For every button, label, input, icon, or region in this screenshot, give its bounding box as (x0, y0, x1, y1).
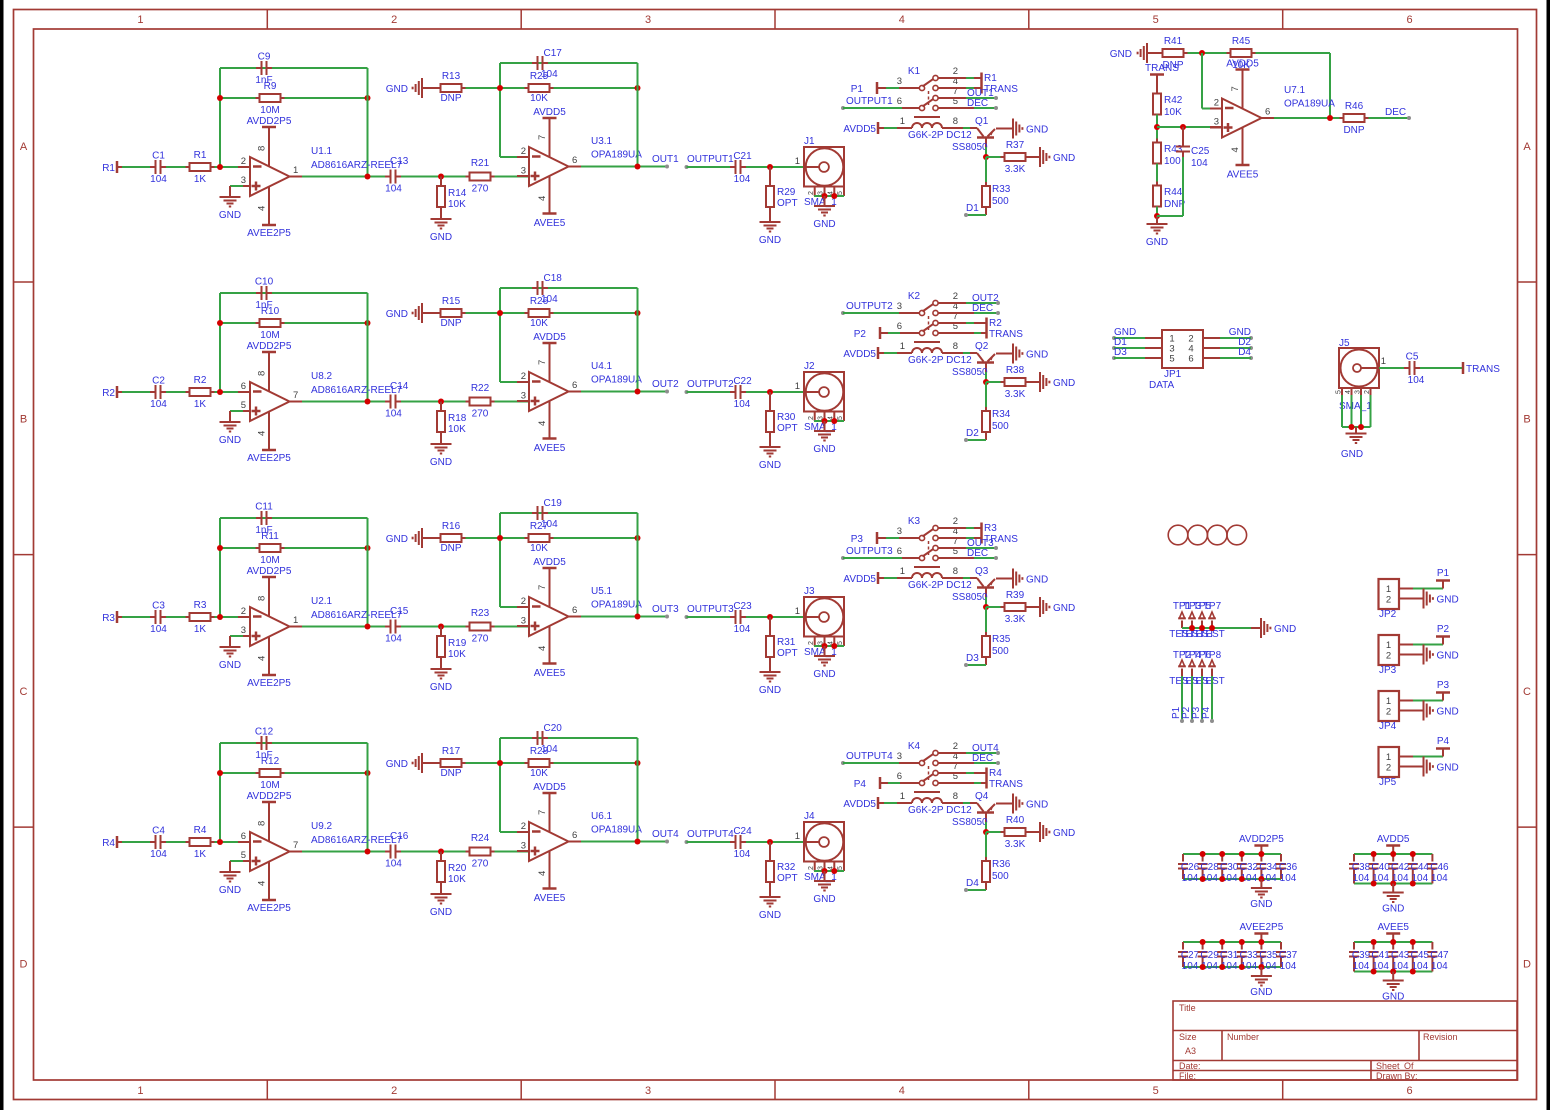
wire (166, 841, 186, 843)
wire (1354, 971, 1432, 973)
resistor R14 10K (437, 177, 467, 212)
wire (466, 312, 638, 314)
port P3 (851, 532, 877, 545)
svg-text:GND: GND (813, 219, 835, 230)
svg-text:104: 104 (1353, 961, 1370, 972)
wire (290, 401, 386, 403)
svg-text:C: C (1523, 686, 1531, 698)
svg-text:104: 104 (1408, 375, 1425, 386)
junction (1410, 939, 1416, 945)
wire (367, 68, 369, 177)
svg-text:6: 6 (897, 96, 902, 107)
svg-text:AD8616ARZ-REEL7: AD8616ARZ-REEL7 (311, 385, 403, 396)
svg-text:C31: C31 (1220, 950, 1239, 961)
junction (1371, 851, 1377, 857)
resistor R30 OPT (766, 392, 798, 436)
svg-text:C9: C9 (258, 52, 271, 63)
svg-text:G6K-2P DC12: G6K-2P DC12 (908, 130, 972, 141)
svg-text:10K: 10K (448, 649, 466, 660)
svg-text:4: 4 (537, 871, 548, 876)
svg-text:GND: GND (430, 232, 452, 243)
resistor R10 10M (256, 306, 285, 341)
svg-text:DEC: DEC (972, 303, 993, 314)
svg-text:DEC: DEC (1385, 107, 1406, 118)
capacitor C38 104 (1349, 854, 1371, 884)
svg-text:Date:: Date: (1179, 1061, 1201, 1071)
svg-text:5: 5 (837, 866, 844, 870)
svg-text:3: 3 (645, 14, 651, 26)
resistor R36 500 (982, 857, 1011, 886)
transistor Q4 SS8050 (952, 791, 995, 828)
wire (499, 738, 501, 832)
svg-text:2: 2 (521, 371, 526, 382)
ground (1013, 119, 1048, 139)
svg-text:10K: 10K (530, 93, 548, 104)
wire (843, 107, 902, 109)
wire (220, 97, 368, 99)
svg-text:3: 3 (645, 1085, 651, 1097)
svg-text:3: 3 (1214, 117, 1219, 128)
net label D3 (964, 653, 986, 667)
svg-text:R1: R1 (194, 150, 207, 161)
svg-text:5: 5 (1169, 354, 1174, 365)
svg-text:AVDD2P5: AVDD2P5 (247, 566, 292, 577)
svg-text:3: 3 (521, 166, 526, 177)
svg-text:AVDD5: AVDD5 (843, 349, 876, 360)
svg-text:GND: GND (1382, 992, 1404, 1003)
svg-text:3: 3 (1355, 390, 1362, 394)
wire (878, 352, 912, 354)
capacitor C17 104 (532, 48, 562, 80)
svg-text:104: 104 (1182, 961, 1199, 972)
junction (217, 389, 223, 395)
wire (290, 851, 386, 853)
svg-text:D3: D3 (966, 653, 979, 664)
svg-text:R3: R3 (194, 600, 207, 611)
power port AVDD2P5 (247, 791, 292, 841)
ground (386, 78, 441, 98)
svg-text:6: 6 (572, 155, 577, 166)
svg-text:500: 500 (992, 646, 1009, 657)
svg-text:R37: R37 (1006, 140, 1025, 151)
svg-text:3.3K: 3.3K (1005, 614, 1026, 625)
svg-text:D: D (1523, 959, 1531, 971)
svg-text:G6K-2P DC12: G6K-2P DC12 (908, 355, 972, 366)
svg-text:TRANS: TRANS (989, 329, 1023, 340)
power port AVDD5 (843, 797, 878, 810)
svg-text:3: 3 (521, 841, 526, 852)
svg-text:AVDD2P5: AVDD2P5 (247, 341, 292, 352)
svg-text:C28: C28 (1200, 862, 1219, 873)
svg-text:P1: P1 (1437, 568, 1450, 579)
svg-text:OUT4: OUT4 (652, 829, 679, 840)
ground (op-amp non-inverting input) (219, 636, 250, 671)
wire (1183, 966, 1281, 968)
junction (1200, 851, 1206, 857)
svg-text:D2: D2 (966, 428, 979, 439)
svg-text:AVDD5: AVDD5 (843, 574, 876, 585)
connector J3 ground pins 2 3 4 5 (808, 637, 844, 650)
svg-text:D3: D3 (1114, 347, 1127, 358)
capacitor C45 104 (1408, 942, 1430, 972)
net label OUT1 (652, 154, 679, 169)
junction (1410, 851, 1416, 857)
ground (430, 432, 452, 468)
svg-text:104: 104 (150, 399, 167, 410)
svg-text:GND: GND (1026, 575, 1048, 586)
svg-text:270: 270 (472, 859, 489, 870)
port P1 (851, 82, 877, 95)
svg-text:SS8050: SS8050 (952, 592, 988, 603)
resistor R44 DNP (1153, 182, 1185, 211)
svg-text:7: 7 (537, 810, 548, 815)
svg-text:R12: R12 (261, 756, 280, 767)
capacitor C37 104 (1276, 942, 1298, 972)
svg-text:GND: GND (430, 682, 452, 693)
junction (497, 535, 503, 541)
svg-text:1: 1 (1381, 356, 1386, 367)
wire (687, 166, 731, 168)
svg-text:GND: GND (759, 235, 781, 246)
junction (1239, 851, 1245, 857)
svg-text:GND: GND (813, 669, 835, 680)
svg-text:OUTPUT4: OUTPUT4 (687, 829, 734, 840)
junction (1154, 124, 1160, 130)
svg-text:GND: GND (1053, 828, 1075, 839)
wire (220, 742, 368, 744)
wire + ground (1399, 645, 1459, 665)
svg-text:GND: GND (1437, 651, 1459, 662)
svg-text:C41: C41 (1371, 950, 1390, 961)
junction (635, 389, 641, 395)
wire (401, 851, 466, 853)
svg-text:C30: C30 (1220, 862, 1239, 873)
svg-text:JP3: JP3 (1379, 665, 1397, 676)
ground (759, 657, 781, 696)
wire (938, 87, 981, 89)
svg-text:GND: GND (386, 309, 408, 320)
ground (1013, 794, 1048, 814)
svg-text:2: 2 (1364, 390, 1371, 394)
svg-text:C37: C37 (1279, 950, 1298, 961)
svg-text:R45: R45 (1232, 36, 1251, 47)
capacitor C32 104 (1237, 854, 1259, 884)
wire (569, 841, 668, 843)
port R3 / TRANS (982, 523, 1019, 546)
capacitor C18 104 (532, 273, 562, 305)
port R2 / TRANS (987, 318, 1024, 341)
svg-text:AVEE2P5: AVEE2P5 (247, 228, 291, 239)
svg-text:3.3K: 3.3K (1005, 839, 1026, 850)
resistor R43 100 (1153, 139, 1183, 168)
svg-text:R40: R40 (1006, 815, 1025, 826)
wire + port P4 (1399, 736, 1450, 757)
port TRANS (1463, 362, 1500, 375)
op-amp U1.1 AD8616ARZ-REEL7 (238, 146, 403, 196)
svg-text:3: 3 (897, 301, 902, 312)
ground (386, 528, 441, 548)
svg-text:R26: R26 (530, 296, 549, 307)
svg-text:A: A (1523, 141, 1531, 153)
junction (217, 320, 223, 326)
relay K3 G6K-2P DC12 (897, 516, 972, 591)
svg-text:TRANS: TRANS (989, 779, 1023, 790)
svg-text:OUT3: OUT3 (652, 604, 679, 615)
junction (983, 154, 989, 160)
svg-text:1: 1 (137, 14, 143, 26)
capacitor C12 1nF (255, 727, 274, 762)
svg-text:TRANS: TRANS (1145, 63, 1179, 74)
svg-text:C17: C17 (544, 48, 563, 59)
svg-text:C21: C21 (733, 151, 752, 162)
net port OUTPUT1 (841, 96, 893, 110)
connector J4 ground pins 2 3 4 5 (808, 862, 844, 875)
wire + port P2 (1399, 624, 1450, 645)
capacitor C3 104 (150, 601, 167, 636)
svg-text:A: A (20, 141, 28, 153)
resistor R38 3.3K (1001, 365, 1030, 400)
capacitor C5 104 (1404, 352, 1425, 387)
svg-text:GND: GND (430, 457, 452, 468)
svg-text:3: 3 (897, 76, 902, 87)
junction (635, 164, 641, 170)
junction (1258, 851, 1264, 857)
junction (217, 614, 223, 620)
svg-text:3: 3 (897, 751, 902, 762)
junction (767, 164, 773, 170)
svg-text:C40: C40 (1371, 862, 1390, 873)
junction (635, 85, 641, 91)
port P2 (854, 327, 880, 340)
connector JP1 DATA (1149, 330, 1203, 391)
svg-text:6: 6 (1188, 354, 1193, 365)
svg-text:GND: GND (1437, 595, 1459, 606)
svg-text:AVDD5: AVDD5 (1377, 834, 1410, 845)
wire (166, 391, 186, 393)
wire (569, 391, 668, 393)
junction (497, 310, 503, 316)
svg-text:R19: R19 (448, 638, 467, 649)
port R4 / TRANS (987, 768, 1024, 791)
svg-text:Q3: Q3 (975, 566, 989, 577)
svg-text:AVEE5: AVEE5 (534, 893, 566, 904)
ground (430, 882, 452, 918)
svg-text:R41: R41 (1164, 36, 1183, 47)
svg-text:2: 2 (808, 641, 815, 645)
wire + ground (1399, 701, 1459, 721)
wire (367, 518, 369, 627)
junction (983, 829, 989, 835)
net label DEC (938, 98, 998, 110)
svg-text:OPT: OPT (777, 648, 798, 659)
svg-text:R4: R4 (194, 825, 207, 836)
svg-text:GND: GND (219, 660, 241, 671)
svg-text:AVEE5: AVEE5 (534, 218, 566, 229)
svg-text:500: 500 (992, 421, 1009, 432)
resistor R25 10K (525, 71, 554, 104)
connector J2 SMA_1 (795, 361, 844, 433)
wire (637, 738, 639, 842)
wire (1188, 52, 1231, 54)
resistor R18 10K (437, 402, 467, 437)
svg-text:7: 7 (537, 360, 548, 365)
junction (1219, 939, 1225, 945)
wire (985, 382, 987, 411)
svg-text:6: 6 (897, 321, 902, 332)
svg-text:GND: GND (1053, 153, 1075, 164)
svg-text:C38: C38 (1352, 862, 1371, 873)
svg-text:R17: R17 (442, 746, 461, 757)
wire (942, 577, 977, 579)
net label OUT1 (938, 88, 998, 100)
junction (1189, 625, 1195, 631)
wire (938, 77, 981, 79)
svg-text:1K: 1K (194, 399, 207, 410)
resistor R31 OPT (766, 617, 798, 661)
svg-text:104: 104 (734, 399, 751, 410)
svg-text:6: 6 (897, 546, 902, 557)
svg-text:SS8050: SS8050 (952, 367, 988, 378)
wire (219, 68, 221, 167)
svg-text:104: 104 (385, 409, 402, 420)
svg-text:C22: C22 (733, 376, 752, 387)
wire (466, 762, 638, 764)
wire (1156, 207, 1158, 217)
wire (401, 176, 466, 178)
svg-text:C10: C10 (255, 277, 274, 288)
net label OUT3 (652, 604, 679, 619)
svg-text:AVDD5: AVDD5 (533, 782, 566, 793)
svg-text:3: 3 (897, 526, 902, 537)
svg-text:2: 2 (521, 596, 526, 607)
title block (1173, 1001, 1517, 1081)
resistor R27 10K (525, 521, 554, 554)
resistor R22 270 (466, 383, 495, 420)
wire (495, 851, 530, 853)
svg-text:R2: R2 (194, 375, 207, 386)
wire (1183, 941, 1281, 943)
svg-text:GND: GND (219, 435, 241, 446)
wire (985, 597, 987, 607)
svg-text:1: 1 (795, 606, 800, 617)
svg-text:P3: P3 (1437, 680, 1450, 691)
wire (687, 616, 731, 618)
capacitor C15 104 (385, 606, 409, 645)
capacitor C47 104 (1427, 942, 1449, 972)
svg-text:GND: GND (1250, 899, 1272, 910)
svg-text:U1.1: U1.1 (311, 146, 333, 157)
svg-text:C36: C36 (1279, 862, 1298, 873)
svg-text:GND: GND (386, 534, 408, 545)
connector J1 SMA_1 (795, 136, 844, 208)
svg-text:10K: 10K (530, 768, 548, 779)
svg-text:GND: GND (1341, 449, 1363, 460)
svg-text:C14: C14 (390, 381, 409, 392)
svg-text:GND: GND (813, 894, 835, 905)
svg-text:R34: R34 (992, 409, 1011, 420)
svg-text:C33: C33 (1240, 950, 1259, 961)
svg-text:GND: GND (1110, 49, 1132, 60)
wire (985, 832, 987, 861)
svg-text:104: 104 (1280, 961, 1297, 972)
wire (1030, 831, 1041, 833)
svg-text:270: 270 (472, 184, 489, 195)
junction (365, 624, 371, 630)
wire (220, 517, 368, 519)
power port AVDD2P5 (247, 116, 292, 166)
power port AVDD5 (1377, 834, 1410, 854)
port P4 (854, 777, 880, 790)
wire (500, 287, 638, 289)
svg-text:AD8616ARZ-REEL7: AD8616ARZ-REEL7 (311, 610, 403, 621)
power port AVEE5 (534, 401, 566, 454)
net port OUTPUT1 (685, 154, 735, 169)
ground (op-amp non-inverting input) (219, 861, 250, 896)
resistor R9 10M (256, 81, 285, 116)
wire (401, 626, 466, 628)
power port AVDD2P5 (247, 341, 292, 391)
svg-text:10K: 10K (448, 199, 466, 210)
svg-text:D: D (20, 959, 28, 971)
svg-text:R15: R15 (442, 296, 461, 307)
capacitor C44 104 (1408, 854, 1430, 884)
svg-text:U5.1: U5.1 (591, 586, 613, 597)
svg-text:D1: D1 (966, 203, 979, 214)
svg-text:AVEE5: AVEE5 (534, 443, 566, 454)
svg-text:R16: R16 (442, 521, 461, 532)
resistor R37 3.3K (1001, 140, 1030, 175)
relay K1 G6K-2P DC12 (897, 66, 972, 141)
svg-text:8: 8 (257, 146, 268, 151)
wire (122, 166, 153, 168)
port R3 (input) (102, 611, 122, 624)
svg-text:C42: C42 (1391, 862, 1410, 873)
logo circles (1168, 525, 1246, 545)
op-amp U2.1 AD8616ARZ-REEL7 (238, 596, 403, 646)
svg-text:GND: GND (1026, 125, 1048, 136)
svg-text:5: 5 (1153, 1085, 1159, 1097)
wire pin5 + net D3 (1112, 347, 1162, 360)
junction (217, 164, 223, 170)
svg-text:AVDD5: AVDD5 (843, 124, 876, 135)
ground (813, 421, 835, 455)
svg-text:R46: R46 (1345, 101, 1364, 112)
svg-text:104: 104 (385, 634, 402, 645)
net label D1 (964, 203, 986, 217)
svg-text:1: 1 (900, 566, 905, 577)
capacitor C28 104 (1198, 854, 1220, 884)
wire (1182, 157, 1184, 216)
svg-text:OUTPUT2: OUTPUT2 (846, 301, 893, 312)
ground (1040, 147, 1075, 167)
capacitor C29 104 (1198, 942, 1220, 972)
junction (365, 95, 371, 101)
svg-text:R9: R9 (264, 81, 277, 92)
svg-text:R22: R22 (471, 383, 490, 394)
svg-text:R21: R21 (471, 158, 490, 169)
resistor R4 1K (186, 825, 215, 860)
svg-text:7: 7 (1230, 86, 1241, 91)
wire (495, 401, 530, 403)
svg-text:10M: 10M (260, 330, 279, 341)
svg-text:R32: R32 (777, 862, 796, 873)
svg-text:C34: C34 (1259, 862, 1278, 873)
resistor R28 10K (525, 746, 554, 779)
net port OUTPUT2 (841, 301, 893, 315)
svg-text:10K: 10K (530, 318, 548, 329)
wire + net P4 (1201, 676, 1214, 723)
test points TP2 TP4 TP6 TP8 (1169, 650, 1225, 687)
